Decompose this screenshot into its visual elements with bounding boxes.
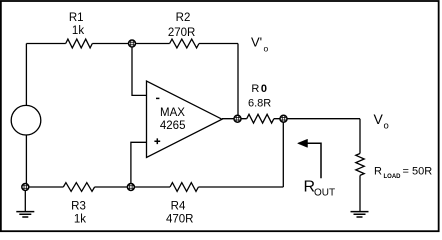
svg-text:MAX: MAX [160,107,185,119]
svg-text:o: o [264,44,269,54]
svg-text:LOAD: LOAD [384,174,402,180]
svg-text:0: 0 [261,83,267,95]
svg-text:R4: R4 [171,200,186,212]
svg-text:R: R [251,83,259,95]
svg-text:V: V [374,111,384,127]
svg-text:4265: 4265 [160,120,186,132]
svg-text:R1: R1 [69,12,84,24]
svg-text:R2: R2 [176,12,191,24]
svg-text:6.8R: 6.8R [248,98,271,110]
svg-text:R3: R3 [71,200,86,212]
svg-text:470R: 470R [166,214,194,226]
svg-text:R: R [374,166,382,178]
svg-text:OUT: OUT [314,187,335,198]
svg-text:1k: 1k [74,214,86,226]
svg-text:o: o [384,121,389,132]
svg-text:1k: 1k [72,25,84,37]
svg-text:V': V' [251,35,262,50]
svg-text:270R: 270R [168,27,196,39]
svg-text:= 50R: = 50R [403,166,433,178]
